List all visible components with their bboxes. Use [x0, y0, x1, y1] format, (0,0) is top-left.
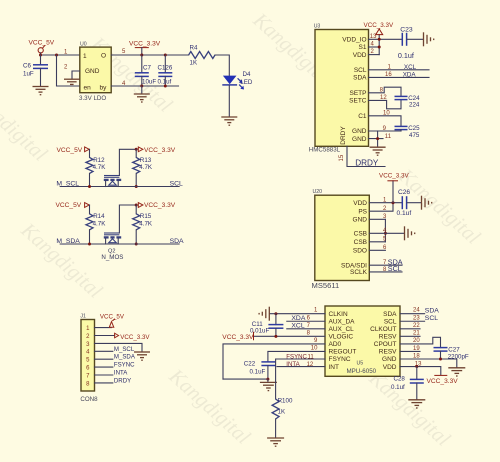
svg-text:VCC_3.3V: VCC_3.3V	[427, 378, 459, 385]
svg-text:VCC_3.3V: VCC_3.3V	[120, 334, 150, 341]
svg-text:SDA: SDA	[425, 307, 439, 314]
svg-text:VDD: VDD	[353, 52, 367, 59]
svg-text:4.7K: 4.7K	[139, 164, 153, 171]
svg-text:VCC_5V: VCC_5V	[29, 39, 55, 46]
svg-text:4.7K: 4.7K	[139, 221, 153, 228]
svg-text:CLKOUT: CLKOUT	[370, 326, 396, 333]
svg-text:0.1uf: 0.1uf	[398, 51, 414, 60]
svg-text:0.1uf: 0.1uf	[391, 384, 405, 391]
wire SDA rail	[106, 243, 180, 245]
pin 6 wire (FSYNC)	[95, 366, 113, 368]
wire R15 to SDA rail	[135, 230, 137, 244]
node junction gate / VCC_3.3V	[135, 148, 138, 151]
svg-text:0.1uf: 0.1uf	[397, 210, 412, 217]
svg-text:16: 16	[385, 72, 392, 78]
pin 10 wire (REGOUT)	[268, 351, 325, 361]
wire R13 to SCL rail	[135, 173, 137, 186]
svg-text:10: 10	[383, 110, 390, 116]
svg-text:HMC5883L: HMC5883L	[309, 147, 341, 154]
svg-text:SETC: SETC	[349, 98, 367, 105]
pin 15 wire (DRDY bottom pin)	[347, 146, 385, 166]
pin 4 wire (M_SCL)	[95, 350, 113, 352]
wire M_SCL rail	[60, 186, 105, 188]
svg-text:15: 15	[339, 154, 345, 161]
svg-text:FSYNC: FSYNC	[114, 362, 135, 369]
node junction C7 top	[140, 54, 143, 57]
svg-text:24: 24	[413, 308, 420, 314]
connector J1 CON8	[80, 314, 98, 403]
wire U0 pin2 to ground	[72, 71, 80, 79]
capacitor C23	[398, 27, 423, 60]
capacitor C7	[135, 55, 157, 86]
svg-text:S1: S1	[359, 44, 367, 51]
svg-text:11: 11	[385, 134, 392, 140]
svg-text:10: 10	[311, 346, 318, 352]
svg-text:475: 475	[409, 132, 420, 139]
node junction C11 bottom	[274, 335, 277, 338]
power port VCC_5V (SCL shifter)	[57, 147, 90, 154]
svg-text:INTA: INTA	[114, 370, 128, 377]
wire bypass rail U0 pin4	[111, 85, 178, 87]
svg-text:PS: PS	[358, 208, 367, 215]
svg-text:11: 11	[308, 354, 315, 360]
svg-text:C1: C1	[358, 113, 367, 120]
pin 11 wire (FSYNC)	[276, 359, 325, 399]
power port VCC_5V (J1, diagonal arrow)	[100, 314, 125, 328]
wire VCC bus U3	[378, 35, 380, 55]
pin 1 wire (VDD)	[369, 202, 402, 204]
svg-text:VCC_3.3V: VCC_3.3V	[364, 22, 395, 29]
LED D4	[222, 71, 253, 90]
svg-text:18: 18	[413, 353, 420, 359]
svg-text:C22: C22	[244, 360, 256, 367]
svg-text:M_SCL: M_SCL	[56, 181, 79, 188]
capacitor C25	[395, 125, 421, 139]
node junction R12 / M_SCL	[88, 185, 91, 188]
svg-text:XDA: XDA	[291, 315, 305, 322]
wire AD0/C22 ground rail	[223, 378, 268, 380]
pin 2 wire to VCC_3.3V	[95, 335, 115, 337]
svg-text:23: 23	[413, 315, 420, 321]
pin 5 wire (CSB)	[369, 241, 385, 243]
wire VCC_5V to R14	[89, 205, 91, 214]
svg-text:0.1uf: 0.1uf	[158, 79, 172, 86]
power port VCC_3.3V (SDA shifter)	[138, 202, 175, 209]
svg-text:DRDY: DRDY	[114, 377, 131, 384]
svg-text:C23: C23	[400, 27, 413, 34]
svg-text:CSB: CSB	[354, 239, 367, 246]
pin 4 wire (CSB)	[369, 232, 404, 234]
svg-text:21: 21	[413, 331, 420, 337]
svg-text:CPOUT: CPOUT	[374, 341, 397, 348]
svg-text:SDA: SDA	[383, 311, 397, 318]
pin 22 wire (CLKOUT)	[400, 328, 420, 330]
wire R4 to LED	[215, 55, 229, 75]
resistor R100	[272, 398, 293, 419]
svg-text:DRDY: DRDY	[355, 158, 379, 167]
node junction C126 top	[164, 54, 167, 57]
ground right of C26	[422, 196, 432, 210]
capacitor C6	[23, 55, 48, 86]
pin 8 wire (SCLK)	[369, 271, 402, 273]
pin 6 wire (SDO)	[369, 249, 385, 251]
ground below LED	[221, 117, 237, 125]
capacitor C24	[395, 95, 421, 108]
svg-text:FSYNC: FSYNC	[329, 356, 351, 363]
resistor R15	[133, 205, 153, 230]
svg-text:CSB: CSB	[354, 231, 367, 238]
pin 2 wire (VDD)	[369, 54, 380, 56]
svg-text:O: O	[101, 53, 106, 60]
resistor R12	[86, 157, 106, 174]
pin 9 wire (GND)	[369, 130, 402, 132]
svg-text:1K: 1K	[190, 60, 198, 67]
transistor Q2 N_MOS	[101, 233, 123, 261]
power port VCC_3.3V (J1, arrow right)	[115, 333, 151, 341]
power port VCC_3.3V (bar, regulator output)	[129, 41, 161, 55]
resistor R14	[86, 213, 106, 230]
wire SCL rail	[106, 186, 180, 188]
svg-text:C7: C7	[143, 65, 151, 72]
node junction C126 bottom	[164, 85, 167, 88]
IC U20 MS5611	[312, 189, 370, 290]
pin 7 wire (SDA/SDI)	[369, 264, 402, 266]
node junction GND pins	[376, 137, 379, 140]
pin 18 wire (GND)	[400, 359, 457, 367]
svg-text:RESV: RESV	[379, 349, 397, 356]
svg-text:M_SCL: M_SCL	[114, 346, 135, 353]
pin 19 wire (RESV)	[400, 350, 420, 352]
svg-text:DRDY: DRDY	[340, 126, 347, 145]
IC U3 HMC5883L	[309, 23, 369, 153]
wire 5V rail to U0 pin1	[41, 54, 80, 56]
pin 6 wire (AUX_DA)	[287, 320, 325, 322]
svg-text:VCC_5V: VCC_5V	[57, 147, 83, 154]
capacitor C22	[244, 360, 276, 379]
svg-text:VDD: VDD	[383, 364, 397, 371]
power port VCC_5V (SDA shifter)	[56, 202, 90, 209]
svg-text:R13: R13	[140, 157, 152, 164]
svg-text:R4: R4	[190, 45, 198, 52]
power port VCC_3.3V (VDD, bar down)	[427, 375, 459, 385]
svg-text:SCL: SCL	[388, 264, 402, 273]
node junction C27/GND	[439, 358, 442, 361]
pin 21 wire (RESV)	[400, 335, 420, 337]
svg-text:M_SDA: M_SDA	[56, 238, 80, 245]
svg-text:XDA: XDA	[403, 72, 417, 79]
node junction bus/pin4	[378, 46, 381, 49]
svg-text:FSYNC: FSYNC	[286, 353, 307, 360]
pin 8 wire (VLOGIC)	[253, 335, 325, 337]
svg-text:J1: J1	[80, 314, 86, 320]
pin 10 wire (C1)	[369, 116, 402, 127]
svg-text:1: 1	[83, 53, 87, 60]
resistor R4	[189, 45, 215, 67]
svg-text:VCC_5V: VCC_5V	[56, 202, 82, 209]
svg-text:R100: R100	[278, 398, 293, 405]
svg-text:SCL: SCL	[384, 318, 397, 325]
svg-text:SDO: SDO	[353, 248, 367, 255]
wire EN branch to U0	[57, 55, 80, 86]
pin 4 wire (S1)	[369, 46, 380, 48]
svg-text:U20: U20	[313, 189, 323, 195]
svg-text:GND: GND	[352, 136, 367, 143]
svg-text:R15: R15	[140, 213, 152, 220]
svg-text:MS5611: MS5611	[312, 281, 340, 290]
power port VCC_3.3V (SCL shifter)	[138, 147, 175, 154]
pin 1 wire (CLKIN)	[270, 313, 325, 315]
power port VCC_3.3V (VLOGIC)	[222, 332, 254, 341]
capacitor C28	[391, 367, 424, 400]
svg-text:4.7K: 4.7K	[93, 221, 107, 228]
svg-text:SCL: SCL	[425, 315, 438, 322]
node junction R15 / SDA	[135, 243, 138, 246]
svg-text:22: 22	[413, 323, 420, 329]
wire C7 ground stub	[141, 86, 143, 94]
power port VCC_3.3V (U20 bar)	[379, 173, 410, 181]
pin 1 wire (SCL) to XCL	[369, 69, 430, 71]
svg-text:SDA: SDA	[353, 75, 367, 82]
svg-text:R14: R14	[93, 213, 105, 220]
svg-text:by: by	[100, 85, 108, 92]
node junction EN branch	[55, 54, 58, 57]
svg-text:D4: D4	[243, 71, 251, 78]
svg-text:N_MOS: N_MOS	[101, 254, 123, 261]
wire U0 output rail	[111, 54, 188, 56]
svg-text:1uF: 1uF	[23, 71, 34, 78]
pin 12 wire (INT)	[277, 366, 325, 368]
svg-text:19: 19	[413, 346, 420, 352]
svg-text:VCC_3.3V: VCC_3.3V	[144, 147, 176, 154]
svg-text:AUX_DA: AUX_DA	[329, 318, 356, 325]
svg-text:VLOGIC: VLOGIC	[329, 334, 354, 341]
svg-text:VCC_5V: VCC_5V	[100, 314, 125, 321]
node junction VDD/PS	[392, 201, 395, 204]
svg-text:C126: C126	[158, 64, 173, 71]
wire GND/CSB tie	[384, 219, 386, 242]
wire VCC_5V to R12	[89, 149, 91, 157]
svg-text:U0: U0	[80, 42, 87, 48]
svg-text:INT: INT	[329, 364, 340, 371]
svg-text:CON8: CON8	[80, 396, 98, 403]
svg-text:MPU-6050: MPU-6050	[347, 368, 377, 375]
pin 13 wire (VDD)	[400, 367, 441, 375]
svg-text:CLKIN: CLKIN	[329, 311, 348, 318]
wire LED to ground	[228, 86, 230, 117]
node junction R14 / M_SDA	[88, 243, 91, 246]
wire R14 to M_SDA rail	[89, 230, 91, 244]
pin 9 wire (AD0)	[223, 344, 325, 379]
pin 7 wire (INTA)	[95, 374, 113, 376]
wire ground stub C22	[267, 379, 269, 382]
ground below C7	[134, 94, 150, 102]
pin 23 wire (SCL)	[400, 320, 425, 322]
svg-text:U3: U3	[314, 23, 321, 29]
ground right of CSB	[405, 226, 415, 240]
svg-text:AD0: AD0	[329, 341, 342, 348]
node junction gate / VCC_3.3V (SDA)	[135, 204, 138, 207]
wire VCC_5V drop	[40, 53, 42, 55]
ground at MPU GND pin	[448, 368, 465, 376]
resistor R13	[133, 149, 153, 173]
transistor Q1 N_MOS	[104, 176, 121, 187]
svg-text:VCC_3.3V: VCC_3.3V	[222, 334, 254, 341]
node junction R13 / SCL	[135, 185, 138, 188]
svg-text:1K: 1K	[278, 409, 286, 416]
pin 24 wire (SDA)	[400, 313, 425, 315]
svg-text:20: 20	[413, 338, 420, 344]
ground below C28	[408, 400, 425, 408]
pin 7 wire (AUX_CL)	[287, 328, 325, 330]
pin 11 wire (GND)	[369, 138, 384, 140]
pin 20 wire (CPOUT)	[400, 337, 441, 347]
svg-text:VDD: VDD	[353, 200, 367, 207]
svg-text:XCL: XCL	[291, 323, 304, 330]
svg-text:C25: C25	[408, 125, 420, 132]
pin 16 wire (SDA) to XDA	[369, 76, 430, 78]
svg-text:LED: LED	[240, 79, 253, 86]
svg-text:GND: GND	[353, 217, 368, 224]
wire M_SDA rail	[60, 243, 105, 245]
svg-text:224: 224	[409, 101, 420, 108]
pin 8 wire (DRDY)	[95, 382, 113, 384]
svg-text:SDA: SDA	[170, 238, 184, 245]
pin 8 wire (SETP)	[369, 87, 402, 96]
pin 3 wire (GND)	[369, 218, 385, 220]
wire Q1 gate to VCC_3.3V	[119, 149, 136, 175]
svg-text:12: 12	[380, 95, 387, 101]
svg-text:C27: C27	[448, 346, 460, 353]
ground below C6	[33, 87, 49, 95]
svg-text:RESV: RESV	[379, 334, 397, 341]
svg-text:VCC_3.3V: VCC_3.3V	[144, 202, 176, 209]
node junction bus/pin13	[378, 38, 381, 41]
pin 5 wire (M_SDA)	[95, 358, 113, 360]
capacitor C26	[397, 189, 422, 217]
capacitor C27	[434, 346, 469, 360]
svg-text:C6: C6	[23, 63, 31, 70]
svg-text:SCL: SCL	[354, 67, 367, 74]
svg-text:XCL: XCL	[404, 64, 417, 71]
ground at U0 pin2	[64, 79, 80, 84]
wire R12 to M_SCL rail	[89, 173, 91, 186]
svg-text:R12: R12	[93, 157, 105, 164]
svg-text:GND: GND	[85, 68, 100, 75]
capacitor C126	[158, 55, 173, 86]
pin 13 wire (VDD_IO)	[369, 38, 402, 40]
svg-text:0.1uF: 0.1uF	[250, 369, 266, 376]
node junction CSB	[384, 232, 387, 235]
svg-text:4.7K: 4.7K	[93, 164, 107, 171]
ground at J1 pin3	[134, 352, 150, 360]
svg-text:GND: GND	[352, 128, 367, 135]
svg-text:C26: C26	[398, 189, 410, 196]
pin 12 wire (SETC)	[369, 100, 402, 109]
svg-text:C28: C28	[394, 375, 406, 382]
svg-text:VCC_3.3V: VCC_3.3V	[129, 41, 161, 48]
ground below R100	[267, 438, 284, 446]
svg-text:en: en	[84, 85, 92, 92]
svg-text:SCL: SCL	[170, 181, 183, 188]
wire VCC bus U20	[392, 181, 394, 203]
wire GND tie U3	[377, 131, 379, 147]
node junction C6 top	[39, 54, 42, 57]
svg-text:3.3V LDO: 3.3V LDO	[79, 95, 106, 102]
node junction C7 bottom	[140, 85, 143, 88]
svg-text:10uF: 10uF	[142, 79, 156, 86]
ground below U3 GND pins	[370, 147, 386, 155]
svg-text:REGOUT: REGOUT	[329, 349, 357, 356]
capacitor C11	[250, 314, 283, 337]
pin 2 wire (PS)	[369, 203, 393, 212]
ground below C22	[260, 382, 277, 390]
svg-text:VDD_IO: VDD_IO	[342, 37, 366, 44]
svg-text:M_SDA: M_SDA	[114, 354, 136, 361]
svg-text:12: 12	[307, 362, 314, 368]
svg-text:VCC_3.3V: VCC_3.3V	[379, 173, 410, 180]
svg-text:SCLK: SCLK	[350, 269, 368, 276]
wire R100 to ground	[275, 419, 277, 438]
node junction C11 top	[274, 312, 277, 315]
node junction C28 top	[415, 365, 418, 368]
ground right of C23	[424, 32, 434, 46]
IC U5 MPU-6050	[325, 306, 400, 376]
svg-text:AUX_CL: AUX_CL	[329, 326, 355, 333]
regulator U0 3.3V LDO	[79, 42, 111, 103]
svg-text:U5: U5	[357, 361, 364, 367]
power port VCC_5V (regulator input)	[29, 39, 55, 53]
node junction ground rail	[266, 378, 269, 381]
svg-text:INTA: INTA	[286, 361, 300, 368]
pin 1 wire to VCC_5V	[95, 327, 112, 329]
ground left of CLKIN	[259, 307, 269, 321]
svg-text:SETP: SETP	[350, 90, 367, 97]
pin 3 wire to ground	[95, 343, 143, 351]
power port VCC_3.3V (U3, arrow up)	[364, 22, 395, 34]
svg-text:GND: GND	[382, 356, 397, 363]
wire Q2 gate to VCC_3.3V	[119, 205, 136, 233]
